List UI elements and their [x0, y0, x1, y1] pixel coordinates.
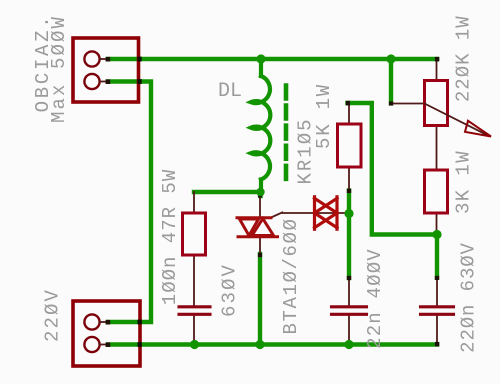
wire end overlap marks — [106, 57, 440, 347]
pin wire: pot wiper connection — [391, 103, 425, 105]
svg-text:63ØV: 63ØV — [219, 263, 241, 317]
resistor 5K body — [338, 124, 362, 167]
pin wire: triac A2 top — [259, 194, 261, 217]
svg-text:22n 4ØØV: 22n 4ØØV — [364, 248, 386, 349]
connector X1 pin circle 2 — [84, 74, 99, 89]
wire 5K bottom to diac node to 22n cap — [347, 191, 351, 279]
svg-text:BTA1Ø/6ØØ: BTA1Ø/6ØØ — [280, 217, 302, 334]
wire 5K top to right vertical — [348, 103, 438, 235]
inductor DL — [251, 59, 270, 194]
connector X1 OBCIAZ box — [73, 38, 139, 102]
potentiometer 220K body — [425, 81, 448, 126]
diac KR1Ø5 — [315, 197, 338, 229]
wire bottom rail net — [108, 342, 437, 346]
svg-text:22ØK 1W: 22ØK 1W — [453, 15, 475, 102]
connector X1 pin stubs — [100, 58, 109, 60]
svg-text:1ØØn 47R 5W: 1ØØn 47R 5W — [159, 169, 181, 305]
pin wire: 47R bottom to 100n cap — [193, 255, 195, 306]
crossing marks X2 — [138, 320, 142, 325]
wire inductor bottom to snubber — [194, 192, 261, 196]
svg-text:5K 1W: 5K 1W — [313, 83, 335, 149]
potentiometer wiper arrow shaft — [425, 104, 489, 136]
wire top rail net — [108, 57, 437, 61]
wire 3K bottom junction down to 220n cap — [435, 235, 439, 278]
pin wire: pot bottom to 3K top — [436, 126, 438, 171]
svg-text:22ØV: 22ØV — [42, 288, 64, 342]
capacitor 100n plates — [179, 305, 210, 308]
pin wire: pot top — [436, 59, 438, 81]
crossing marks X1 — [137, 57, 141, 62]
pin wire: 3K bottom — [436, 213, 438, 235]
pin wire: 47R top — [193, 192, 195, 213]
wire top connector pin2 to bottom connector pin1 — [108, 82, 151, 323]
pin wire: 22n cap leads — [348, 278, 350, 306]
connector X1 pin circle 1 — [84, 51, 99, 66]
triac BTA1Ø/6ØØ — [237, 218, 278, 237]
connector X2 220V box — [73, 301, 140, 366]
pin wire: 5K top — [348, 103, 350, 125]
resistor 3K body — [425, 170, 448, 213]
junction node dots — [190, 54, 442, 349]
inductor core dashed line — [284, 86, 289, 180]
capacitor 22n plates — [332, 305, 367, 308]
connector X2 pin circle 2 — [84, 337, 99, 352]
pin wire: triac A1 bottom — [259, 238, 261, 255]
pin wire: 100n cap bottom — [193, 315, 195, 343]
wire pot branch down — [389, 59, 393, 103]
pin wire: triac gate to diac to node — [271, 213, 349, 218]
pin wire: 220n cap leads — [436, 277, 438, 306]
pin wire: 5K bottom — [348, 167, 350, 191]
resistor 47R 5W body — [183, 213, 206, 255]
potentiometer arrowhead — [465, 121, 491, 137]
connector X2 pin stubs — [100, 321, 109, 323]
svg-text:3K 1W: 3K 1W — [453, 150, 475, 214]
wire triac A1 down to bottom rail — [258, 254, 262, 345]
svg-text:Max 5ØØW: Max 5ØØW — [48, 15, 70, 123]
svg-text:DL: DL — [218, 80, 242, 103]
connector X2 pin circle 1 — [84, 314, 99, 329]
svg-text:22Øn 63ØV: 22Øn 63ØV — [458, 242, 480, 353]
capacitor 220n plates — [421, 305, 454, 308]
